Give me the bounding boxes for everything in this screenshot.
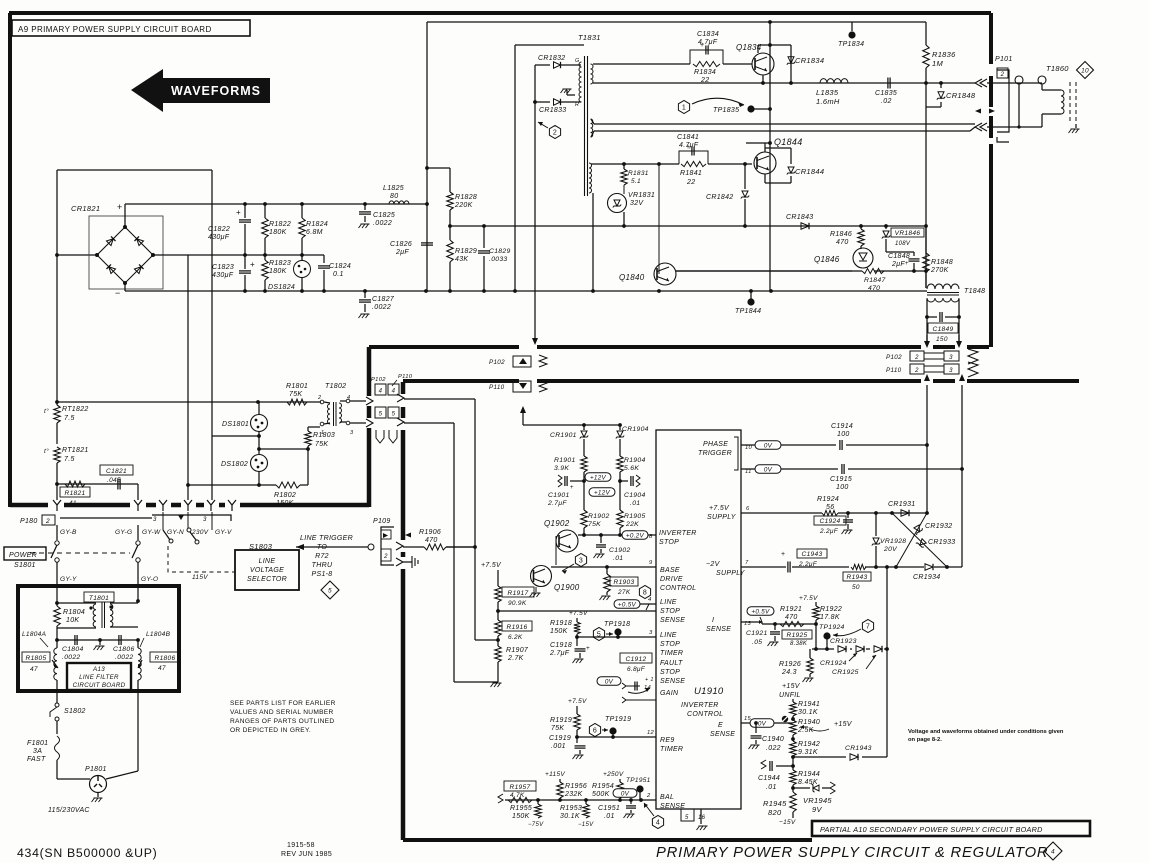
svg-text:43K: 43K bbox=[455, 256, 468, 263]
svg-text:2: 2 bbox=[646, 793, 651, 799]
svg-text:2.7μF: 2.7μF bbox=[547, 500, 567, 507]
capacitor C1849 bbox=[927, 316, 937, 318]
svg-text:R1801: R1801 bbox=[286, 383, 308, 390]
svg-text:R72: R72 bbox=[315, 553, 329, 560]
svg-text:Q1846: Q1846 bbox=[814, 255, 840, 264]
svg-text:.022: .022 bbox=[766, 745, 781, 752]
diode CR1932 (diagonal) bbox=[896, 513, 927, 567]
resistor R1805 label bbox=[22, 652, 50, 662]
POWER switch box label bbox=[4, 547, 46, 560]
diode CR1904 bbox=[618, 423, 622, 427]
T1860 pin circles bbox=[1015, 76, 1023, 84]
vertical x770 (drive rail) bbox=[769, 22, 771, 291]
capacitor C1902 bbox=[600, 535, 602, 543]
svg-text:STOP: STOP bbox=[660, 608, 680, 615]
A10 secondary board border: bottom horizontal y840 bbox=[403, 838, 812, 842]
svg-text:C1835: C1835 bbox=[875, 90, 897, 97]
svg-text:STOP: STOP bbox=[659, 539, 679, 546]
svg-text:L1804B: L1804B bbox=[146, 631, 171, 638]
Q1900 wires bbox=[555, 536, 557, 565]
svg-text:VR1945: VR1945 bbox=[803, 796, 832, 805]
svg-text:R1804: R1804 bbox=[63, 609, 85, 616]
svg-text:C1848: C1848 bbox=[888, 253, 910, 260]
hexagon 7 callout bbox=[862, 620, 873, 633]
svg-text:R1847: R1847 bbox=[864, 277, 886, 284]
svg-text:.0022: .0022 bbox=[115, 654, 134, 661]
pot adjust mark R1940 bbox=[782, 716, 788, 722]
wire y449 to R1803 bbox=[259, 448, 308, 450]
Q1834 emitter wire bbox=[762, 75, 764, 83]
A9 primary board border right (P101 side) bbox=[989, 13, 993, 64]
resistor R1955 bbox=[535, 804, 541, 818]
hexagon 4 callout bbox=[652, 816, 663, 829]
pin arrow (GY-N) bbox=[178, 515, 184, 520]
wire y757 CR1943 row bbox=[793, 756, 846, 758]
svg-text:R1944: R1944 bbox=[798, 771, 820, 778]
transistor Q1834 bbox=[752, 53, 774, 75]
line trigger arrow bbox=[296, 546, 368, 548]
capacitor C1829 bbox=[483, 226, 485, 248]
svg-text:12: 12 bbox=[647, 730, 655, 736]
svg-text:C1912: C1912 bbox=[626, 656, 647, 663]
oval 0V pin15 bbox=[750, 719, 774, 728]
inductor L1825 bbox=[389, 201, 409, 204]
svg-text:P109: P109 bbox=[373, 518, 391, 525]
resistor R1906 bbox=[424, 544, 446, 550]
junction dots on y291 rail bbox=[243, 289, 247, 293]
svg-text:+: + bbox=[586, 645, 590, 652]
svg-text:4: 4 bbox=[648, 597, 652, 603]
P102 right strip lines bbox=[924, 352, 944, 354]
svg-text:P102: P102 bbox=[886, 354, 902, 361]
P180 board edge strip bbox=[10, 503, 48, 508]
wire y45 CR1832 top loop bbox=[515, 44, 584, 46]
svg-text:115/230VAC: 115/230VAC bbox=[48, 807, 90, 814]
P109 bracket bbox=[381, 527, 394, 565]
svg-text:+7.5V: +7.5V bbox=[481, 562, 502, 569]
svg-text:R1823: R1823 bbox=[269, 260, 291, 267]
svg-text:−2V: −2V bbox=[706, 561, 721, 568]
svg-text:GY-G: GY-G bbox=[115, 529, 132, 536]
resistor R1904 bbox=[617, 456, 623, 472]
resistor R1829 bbox=[447, 240, 453, 262]
svg-text:434(SN B500000 &UP): 434(SN B500000 &UP) bbox=[17, 846, 157, 860]
svg-text:100: 100 bbox=[837, 431, 850, 438]
Q1840 base wire bbox=[658, 164, 660, 274]
P102 right pin2 box bbox=[910, 351, 924, 361]
svg-text:C1901: C1901 bbox=[548, 492, 570, 499]
svg-text:REV JUN 1985: REV JUN 1985 bbox=[281, 851, 332, 858]
svg-text:S1801: S1801 bbox=[14, 562, 36, 569]
svg-text:CR1933: CR1933 bbox=[928, 539, 955, 546]
svg-text:R1940: R1940 bbox=[798, 719, 820, 726]
capacitor C1901 bbox=[582, 479, 586, 483]
wire bridge + up and right y204 bbox=[124, 204, 126, 227]
pin 15 wire bbox=[741, 722, 750, 724]
svg-text:2: 2 bbox=[914, 368, 919, 374]
A10 secondary board border: horizontal at y347 bbox=[369, 345, 519, 349]
wire T1802 pin3 to P102 bbox=[350, 422, 366, 424]
svg-text:VALUES AND SERIAL NUMBER: VALUES AND SERIAL NUMBER bbox=[230, 709, 334, 716]
svg-text:C1827: C1827 bbox=[372, 296, 395, 303]
resistor R1953 bbox=[585, 800, 587, 804]
svg-text:+: + bbox=[250, 260, 255, 269]
resistor R1824 bbox=[301, 204, 303, 218]
svg-text:TP1844: TP1844 bbox=[735, 308, 761, 315]
A13 LINE FILTER CIRCUIT BOARD box bbox=[67, 663, 131, 690]
svg-text:6.2K: 6.2K bbox=[508, 634, 523, 641]
T1860 core dashed bbox=[1070, 82, 1076, 124]
svg-text:C1940: C1940 bbox=[762, 736, 784, 743]
svg-text:0V: 0V bbox=[764, 442, 773, 449]
vertical x593 bbox=[592, 193, 594, 291]
capacitor C1914 bbox=[839, 440, 841, 450]
svg-text:PHASE: PHASE bbox=[703, 441, 728, 448]
capacitor C1904 bbox=[618, 479, 622, 483]
P102 pin5 box bbox=[375, 407, 386, 418]
svg-text:8: 8 bbox=[643, 590, 647, 597]
svg-text:9.31K: 9.31K bbox=[798, 749, 818, 756]
svg-text:9: 9 bbox=[649, 560, 653, 566]
svg-text:150K: 150K bbox=[276, 500, 294, 507]
svg-text:41: 41 bbox=[69, 500, 77, 507]
svg-text:RE9: RE9 bbox=[660, 737, 675, 744]
resistor R1804 bbox=[56, 603, 58, 606]
wire y649 CR1923 row bbox=[812, 648, 834, 650]
svg-text:R1917: R1917 bbox=[508, 590, 529, 597]
svg-text:CR1848: CR1848 bbox=[946, 91, 976, 100]
svg-text:C1826: C1826 bbox=[390, 241, 412, 248]
svg-text:C1943: C1943 bbox=[802, 551, 823, 558]
oval 0V pin14 bbox=[597, 677, 621, 686]
wire y83 (inverter output) bbox=[593, 82, 975, 84]
svg-text:CR1925: CR1925 bbox=[832, 669, 859, 676]
inductor L1804B bbox=[137, 640, 139, 648]
svg-text:R1926: R1926 bbox=[779, 661, 801, 668]
resistor R1902 bbox=[583, 481, 585, 510]
svg-text:R1902: R1902 bbox=[588, 513, 610, 520]
svg-text:75K: 75K bbox=[289, 391, 302, 398]
svg-text:PARTIAL A10 SECONDARY POWER: PARTIAL A10 SECONDARY POWER SUPPLY CIRCU… bbox=[820, 825, 1043, 834]
arrows up through y381 bbox=[924, 374, 930, 381]
svg-text:TIMER: TIMER bbox=[660, 746, 683, 753]
svg-text:8.38K: 8.38K bbox=[790, 641, 808, 647]
svg-text:CR1833: CR1833 bbox=[539, 107, 566, 114]
svg-text:E: E bbox=[718, 722, 723, 729]
svg-text:75K: 75K bbox=[315, 441, 328, 448]
svg-text:22K: 22K bbox=[625, 521, 639, 528]
svg-text:TP1835: TP1835 bbox=[713, 107, 739, 114]
svg-text:R1901: R1901 bbox=[554, 457, 576, 464]
svg-text:T1802: T1802 bbox=[325, 383, 346, 390]
svg-text:TP1924: TP1924 bbox=[819, 624, 845, 631]
svg-text:STOP: STOP bbox=[660, 641, 680, 648]
svg-text:LINE: LINE bbox=[660, 599, 677, 606]
svg-text:RANGES OF PARTS OUTLINED: RANGES OF PARTS OUTLINED bbox=[230, 718, 334, 725]
diode CR1923 bbox=[838, 646, 846, 652]
svg-text:R1919: R1919 bbox=[550, 717, 572, 724]
transistor Q1846 (SCR) bbox=[853, 248, 873, 268]
svg-text:232K: 232K bbox=[564, 791, 583, 798]
P101 gap arrows bbox=[975, 109, 981, 114]
svg-text:R1941: R1941 bbox=[798, 701, 820, 708]
svg-text:BASE: BASE bbox=[660, 567, 680, 574]
svg-text:A9 PRIMARY POWER SUPPLY CIRCUI: A9 PRIMARY POWER SUPPLY CIRCUIT BOARD bbox=[18, 25, 212, 34]
svg-text:108V: 108V bbox=[895, 241, 911, 247]
svg-text:.02: .02 bbox=[881, 98, 892, 105]
A10 secondary board border: vertical x403 bbox=[401, 382, 406, 394]
Q1902 collector bbox=[575, 533, 578, 535]
svg-text:0V: 0V bbox=[621, 790, 630, 797]
svg-text:C1902: C1902 bbox=[609, 547, 631, 554]
test point TP1919 bbox=[609, 727, 616, 734]
svg-text:P110: P110 bbox=[886, 367, 902, 374]
capacitor C1918 bbox=[576, 637, 578, 646]
capacitor C1951 ground cap bbox=[630, 800, 632, 804]
resistor R1847 bbox=[862, 268, 884, 273]
ground at P109 pin bbox=[403, 561, 412, 563]
svg-text:.01: .01 bbox=[613, 555, 623, 562]
svg-text:R1846: R1846 bbox=[830, 231, 852, 238]
P101 bracket bbox=[997, 70, 1009, 132]
svg-text:−15V: −15V bbox=[779, 819, 796, 826]
svg-text:3: 3 bbox=[949, 368, 953, 374]
transistor Q1900 bbox=[531, 566, 552, 587]
resistor R1942 bbox=[790, 741, 796, 756]
wire P101 lower to T1860 bbox=[987, 126, 1019, 128]
resistor R1802 bbox=[276, 482, 300, 488]
resistor R1926 bbox=[809, 649, 811, 658]
svg-text:C1821: C1821 bbox=[106, 468, 127, 475]
svg-text:RT1822: RT1822 bbox=[62, 406, 89, 413]
svg-text:6: 6 bbox=[593, 728, 597, 735]
diode CR1833 bbox=[535, 101, 550, 103]
capacitor C1915 bbox=[841, 464, 843, 474]
svg-text:R1956: R1956 bbox=[565, 783, 587, 790]
svg-text:CR1832: CR1832 bbox=[538, 55, 565, 62]
svg-text:1.6mH: 1.6mH bbox=[816, 97, 840, 106]
svg-text:TRIGGER: TRIGGER bbox=[698, 450, 732, 457]
test point TP1951 bbox=[636, 785, 643, 792]
svg-text:R: R bbox=[575, 102, 579, 108]
wire x476 to R1916 junction bbox=[474, 547, 476, 640]
wire x212 down to P180 230V bbox=[211, 170, 213, 436]
svg-text:PS1-8: PS1-8 bbox=[312, 571, 333, 578]
svg-text:2.5K: 2.5K bbox=[797, 727, 814, 734]
wire pin10 to C1914 bbox=[781, 444, 836, 446]
ground for C1825 bbox=[361, 223, 370, 225]
svg-text:8.45K: 8.45K bbox=[798, 779, 818, 786]
double wire y124 bbox=[594, 123, 975, 125]
squiggle left of R1957 bbox=[498, 794, 503, 803]
resistor R1922 bbox=[815, 602, 817, 606]
svg-text:CR1932: CR1932 bbox=[925, 523, 952, 530]
Q1840 collector wire bbox=[676, 270, 862, 272]
svg-text:UNFIL: UNFIL bbox=[779, 692, 801, 699]
svg-text:TP1834: TP1834 bbox=[838, 41, 864, 48]
svg-text:STOP: STOP bbox=[660, 669, 680, 676]
svg-text:+7.5V: +7.5V bbox=[799, 595, 818, 602]
svg-text:GAIN: GAIN bbox=[660, 690, 679, 697]
svg-text:.0033: .0033 bbox=[489, 256, 508, 263]
svg-text:220K: 220K bbox=[454, 202, 473, 209]
svg-text:.0022: .0022 bbox=[62, 654, 81, 661]
svg-text:.0022: .0022 bbox=[372, 304, 391, 311]
svg-text:GY-B: GY-B bbox=[60, 529, 77, 536]
test point TP1835 bbox=[747, 105, 754, 112]
svg-text:7.5: 7.5 bbox=[64, 456, 75, 463]
wire y226 (R1828 rail / CR1843 row) bbox=[450, 225, 926, 227]
svg-text:VOLTAGE: VOLTAGE bbox=[250, 567, 284, 574]
resistor R1803 bbox=[305, 431, 311, 446]
svg-text:0V: 0V bbox=[605, 678, 614, 685]
svg-text:R1945: R1945 bbox=[763, 799, 787, 808]
svg-text:470: 470 bbox=[785, 614, 798, 621]
svg-text:CONTROL: CONTROL bbox=[687, 711, 723, 718]
svg-text:7: 7 bbox=[745, 560, 749, 566]
svg-text:S1802: S1802 bbox=[64, 708, 86, 715]
svg-text:P180: P180 bbox=[20, 518, 38, 525]
resistor R1806 label bbox=[150, 652, 180, 662]
svg-text:2.7K: 2.7K bbox=[507, 655, 524, 662]
svg-text:6: 6 bbox=[746, 506, 750, 512]
svg-text:CR1901: CR1901 bbox=[550, 432, 577, 439]
oval 0V pin2 bbox=[613, 789, 637, 798]
resistor R1944 bbox=[790, 770, 796, 785]
svg-text:+12V: +12V bbox=[590, 474, 607, 481]
P180 pin bracket rail bbox=[60, 517, 152, 519]
svg-text:5.6K: 5.6K bbox=[624, 465, 639, 472]
svg-text:47: 47 bbox=[158, 665, 166, 672]
svg-text:C1822: C1822 bbox=[208, 226, 230, 233]
svg-text:R1904: R1904 bbox=[624, 457, 646, 464]
resistor R1848 bbox=[925, 226, 927, 253]
svg-text:C1951: C1951 bbox=[598, 805, 620, 812]
capacitor C1924 bbox=[847, 513, 849, 518]
svg-text:LINE FILTER: LINE FILTER bbox=[79, 674, 119, 681]
diode CR1834 bbox=[790, 45, 792, 83]
svg-text:470: 470 bbox=[868, 285, 880, 292]
wires T1848 down to P102/P110 bbox=[926, 317, 928, 341]
wire bridge - down to y291 bbox=[124, 283, 126, 291]
svg-text:+0.5V: +0.5V bbox=[618, 601, 637, 608]
capacitor C1824 bbox=[323, 255, 325, 263]
svg-text:6.8μF: 6.8μF bbox=[627, 666, 646, 673]
svg-text:GY-Y: GY-Y bbox=[60, 576, 77, 583]
svg-text:2: 2 bbox=[383, 554, 388, 560]
Q1840 emitter wire bbox=[664, 285, 666, 291]
svg-text:.001: .001 bbox=[551, 743, 566, 750]
connector wavy marks below P102/P110 bbox=[376, 430, 384, 443]
svg-text:1: 1 bbox=[682, 105, 686, 112]
vertical x535 (CR1833 to P102-A) bbox=[534, 65, 536, 338]
resistor R1917 bbox=[497, 570, 499, 586]
A9 primary board border left bbox=[8, 13, 12, 507]
pin 9 wire (base drive) bbox=[551, 566, 656, 568]
wire x57 down to P180 pin 2 bbox=[56, 484, 58, 500]
svg-text:4: 4 bbox=[379, 389, 383, 395]
svg-text:820: 820 bbox=[768, 808, 782, 817]
inductor L1835 bbox=[820, 79, 848, 83]
P110 right wavy bbox=[968, 362, 978, 377]
switch linkage dashed bbox=[30, 552, 130, 554]
svg-text:4: 4 bbox=[656, 820, 660, 827]
svg-text:10: 10 bbox=[1081, 68, 1089, 75]
svg-text:8: 8 bbox=[649, 534, 653, 540]
wire VR1846 to C1848 bbox=[886, 251, 914, 253]
capacitor C1944 bbox=[776, 765, 793, 767]
svg-text:CR1843: CR1843 bbox=[786, 214, 813, 221]
svg-text:T1860: T1860 bbox=[1046, 64, 1069, 73]
A13 board thick box bbox=[18, 586, 179, 691]
svg-text:P102: P102 bbox=[371, 377, 386, 383]
svg-text:150K: 150K bbox=[550, 628, 568, 635]
svg-text:THRU: THRU bbox=[312, 562, 333, 569]
svg-text:270K: 270K bbox=[930, 267, 949, 274]
svg-text:C1921: C1921 bbox=[746, 630, 768, 637]
capacitor C1940 bbox=[755, 723, 757, 733]
diamond 5 bbox=[321, 581, 339, 599]
ground on T1831 shield bbox=[566, 90, 568, 95]
svg-text:CR1834: CR1834 bbox=[795, 56, 824, 65]
resistor R1925 bbox=[782, 630, 812, 639]
capacitor C1806 bbox=[118, 635, 120, 645]
svg-text:T1848: T1848 bbox=[964, 288, 985, 295]
vertical x475 from P102 bbox=[404, 398, 475, 400]
op-amp U1910 box bbox=[656, 430, 741, 809]
svg-text:SENSE: SENSE bbox=[710, 731, 735, 738]
wire pin3 line stop timer bbox=[577, 636, 656, 638]
oval +12V b bbox=[589, 488, 615, 497]
svg-text:5: 5 bbox=[597, 632, 601, 639]
svg-text:9V: 9V bbox=[812, 805, 822, 814]
svg-text:−: − bbox=[115, 288, 121, 298]
svg-text:P101: P101 bbox=[995, 56, 1013, 63]
svg-text:CR1923: CR1923 bbox=[830, 638, 857, 645]
line selector jumper 115V bbox=[162, 512, 164, 530]
svg-text:Q1844: Q1844 bbox=[774, 137, 803, 147]
LINE VOLTAGE SELECTOR box bbox=[235, 550, 299, 590]
P110 pin4 box bbox=[388, 384, 399, 395]
svg-text:R1802: R1802 bbox=[274, 492, 296, 499]
grey outline box around CR1821 bbox=[89, 216, 163, 289]
svg-text:32V: 32V bbox=[630, 200, 644, 207]
svg-text:C1806: C1806 bbox=[113, 646, 135, 653]
arrow into P102-2 right bbox=[924, 341, 930, 348]
svg-text:75K: 75K bbox=[588, 521, 601, 528]
arrow up into P110-Y bbox=[520, 406, 526, 413]
svg-text:R1916: R1916 bbox=[507, 624, 528, 631]
svg-text:FAULT: FAULT bbox=[660, 660, 683, 667]
svg-text:180K: 180K bbox=[269, 268, 287, 275]
svg-text:GY-V: GY-V bbox=[215, 529, 232, 536]
svg-text:20V: 20V bbox=[883, 546, 898, 553]
svg-text:47: 47 bbox=[30, 666, 38, 673]
ground for C1827 bbox=[361, 313, 370, 315]
svg-text:Q1900: Q1900 bbox=[554, 583, 580, 592]
svg-text:75K: 75K bbox=[551, 725, 564, 732]
resistor R1956 bbox=[559, 779, 561, 782]
resistor R1907 bbox=[497, 640, 499, 646]
arrow into P102-A bbox=[532, 338, 538, 345]
P102 right wavy bbox=[968, 349, 978, 364]
vertical x427 bbox=[426, 22, 428, 291]
vertical x515 bbox=[514, 45, 516, 291]
svg-text:GY-O: GY-O bbox=[141, 576, 158, 583]
svg-text:80: 80 bbox=[390, 193, 398, 200]
svg-text:2: 2 bbox=[1000, 72, 1005, 78]
wire pin11 to C1915 bbox=[781, 468, 838, 470]
